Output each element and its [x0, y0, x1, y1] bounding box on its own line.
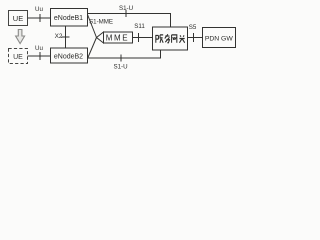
svg-text:X2: X2	[55, 33, 63, 40]
服	[156, 35, 163, 43]
node eNodeB1	[51, 9, 88, 27]
label SGW text 服务网关 (drawn glyphs)	[156, 34, 185, 43]
node UE2 (bottom-left dashed UE box)	[9, 49, 28, 64]
wire S1-U bottom (eNodeB2 to SGW)	[88, 50, 161, 62]
svg-text:S1-MME: S1-MME	[89, 18, 113, 25]
wire Uu top (UE1 to eNodeB1)	[28, 14, 51, 22]
svg-text:eNodeB1: eNodeB1	[54, 15, 83, 22]
svg-text:UE: UE	[13, 54, 23, 61]
svg-text:S11: S11	[134, 23, 145, 30]
node MME (pennant + rect)	[97, 32, 133, 43]
node UE1 (top-left UE box)	[9, 11, 28, 26]
wire Uu bottom (UE2 to eNodeB2)	[28, 52, 51, 60]
svg-text:S1-U: S1-U	[113, 64, 127, 71]
wire S5 (SGW to PDN GW)	[188, 33, 203, 42]
网	[172, 35, 177, 43]
node PDN GW	[203, 28, 236, 48]
svg-text:eNodeB2: eNodeB2	[54, 54, 83, 61]
node SGW (serving gateway)	[153, 27, 188, 50]
svg-text:S5: S5	[189, 24, 197, 31]
svg-text:MME: MME	[106, 33, 129, 42]
wire S1-MME top diagonal (eNodeB1 to MME)	[88, 15, 97, 38]
arrow handover (gray hollow down arrow)	[16, 30, 25, 44]
wire S1-U top (eNodeB1 to SGW)	[88, 10, 171, 27]
node eNodeB2	[51, 48, 88, 63]
svg-text:S1-U: S1-U	[119, 5, 133, 12]
svg-text:PDN GW: PDN GW	[205, 36, 234, 43]
wire S11 (MME to SGW)	[133, 33, 153, 42]
关	[179, 35, 184, 42]
务	[165, 34, 170, 43]
wire S1-MME bottom diagonal (eNodeB2 to MME)	[88, 38, 97, 59]
svg-text:UE: UE	[13, 14, 23, 23]
svg-text:Uu: Uu	[35, 6, 43, 13]
wire X2 (eNodeB1 to eNodeB2)	[62, 26, 70, 48]
svg-text:Uu: Uu	[35, 45, 43, 52]
